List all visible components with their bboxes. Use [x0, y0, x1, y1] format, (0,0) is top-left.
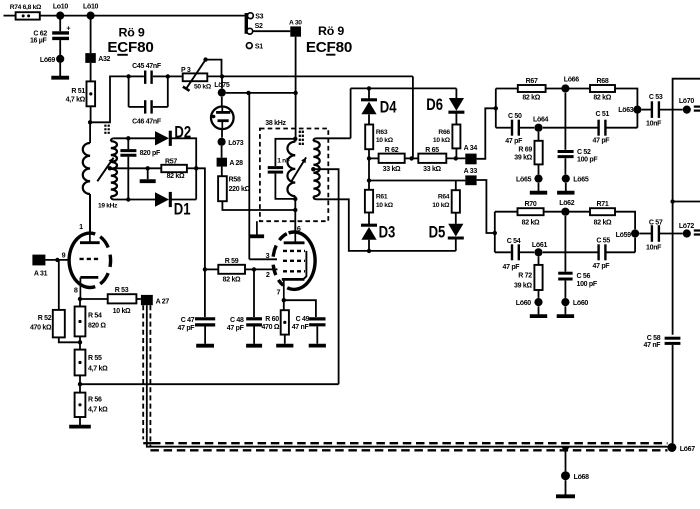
wire top row: [351, 87, 457, 89]
wire: [206, 60, 222, 77]
wire: [538, 183, 540, 191]
node junction: [670, 199, 674, 203]
node Lö60: [516, 298, 543, 307]
diode D5: [429, 213, 464, 242]
svg-text:D4: D4: [380, 98, 397, 117]
terminal A34: [464, 145, 478, 164]
terminal A28: [217, 158, 244, 168]
node Lö63: [618, 106, 641, 115]
resistor R59: [218, 258, 245, 284]
wire A33 link: [477, 180, 495, 233]
wire: [80, 298, 108, 300]
node junction: [126, 136, 130, 140]
node Lö69: [40, 55, 64, 64]
svg-text:R 60: R 60: [265, 316, 279, 323]
svg-text:C 49: C 49: [296, 316, 310, 323]
svg-text:16 µF: 16 µF: [30, 37, 48, 44]
switch contact S2: [247, 23, 263, 34]
wire: [495, 211, 518, 213]
node junction: [409, 156, 413, 160]
resistor R55: [75, 350, 108, 376]
diode D2: [155, 122, 191, 146]
capacitor C53: [646, 94, 663, 127]
svg-text:4,7 kΩ: 4,7 kΩ: [88, 407, 108, 414]
label pin 3: [266, 251, 270, 260]
node tap junction: [311, 167, 315, 171]
wire: [660, 109, 683, 111]
wire: [79, 417, 81, 425]
svg-text:C 50: C 50: [508, 113, 522, 120]
svg-text:R 69: R 69: [518, 146, 532, 153]
svg-text:Lö68: Lö68: [574, 474, 590, 481]
wire: [564, 216, 566, 272]
capacitor C49: [292, 316, 326, 331]
svg-text:C 47: C 47: [181, 317, 195, 324]
triode anode: [80, 194, 100, 243]
wire: [253, 327, 255, 344]
svg-text:R58: R58: [229, 177, 241, 184]
capacitor C58: [644, 335, 681, 349]
node Lö65: [562, 175, 589, 184]
capacitor C52: [558, 149, 599, 163]
wire shielded conductor: [147, 305, 668, 447]
node tap: [561, 447, 569, 454]
triode grid: [80, 258, 101, 260]
ground shield: [250, 221, 264, 236]
node junction: [367, 178, 371, 182]
wire: [136, 298, 141, 300]
svg-text:19 kHz: 19 kHz: [98, 203, 118, 210]
diode D4: [361, 88, 397, 116]
node junction: [282, 298, 286, 302]
wire adjust arrow: [292, 157, 307, 181]
wire secondary top: [317, 137, 351, 139]
resistor R52: [30, 310, 65, 338]
pentode grid g2: [283, 260, 305, 262]
diode D3: [361, 213, 395, 242]
resistor R72: [514, 257, 543, 291]
capacitor C47: [178, 317, 216, 332]
svg-text:R74 6,8 kΩ: R74 6,8 kΩ: [10, 4, 42, 11]
svg-text:Lo10: Lo10: [53, 4, 69, 11]
wire: [59, 337, 80, 342]
wire: [221, 146, 223, 158]
capacitor 820pF: [120, 138, 161, 199]
capacitor C62: [30, 23, 71, 44]
svg-text:S2: S2: [255, 23, 263, 30]
wire long: [80, 383, 339, 385]
svg-text:33 kΩ: 33 kΩ: [383, 166, 401, 173]
transformer core: [300, 131, 303, 145]
pentode anode: [284, 226, 305, 243]
wire: [226, 92, 296, 94]
terminal A33: [464, 168, 478, 185]
wire: [538, 164, 540, 174]
wire: [222, 201, 295, 210]
resistor R56: [75, 393, 108, 417]
terminal A30: [289, 19, 302, 36]
capacitor C51: [593, 111, 611, 145]
svg-text:C 54: C 54: [507, 238, 521, 245]
node Lö64: [533, 117, 549, 132]
label pin 8: [74, 285, 78, 294]
node Lö59: [616, 229, 640, 238]
svg-text:R68: R68: [597, 78, 609, 85]
capacitor C54: [503, 238, 521, 271]
node junction: [146, 166, 150, 170]
svg-text:82 kΩ: 82 kΩ: [167, 173, 185, 180]
node junction: [126, 74, 130, 78]
capacitor C57: [646, 219, 663, 251]
wire P3 wiper: [183, 60, 206, 91]
resistor R57: [161, 158, 187, 180]
capacitor C50: [505, 113, 523, 145]
svg-text:Lö66: Lö66: [564, 76, 580, 83]
coil 38kHz secondary: [313, 138, 319, 199]
wire: [89, 194, 91, 233]
node junction: [78, 340, 82, 344]
transformer core: [105, 125, 108, 135]
wire: [495, 89, 497, 128]
resistor R65: [418, 147, 446, 173]
wire: [544, 211, 590, 213]
ground: [276, 344, 293, 348]
svg-text:10 kΩ: 10 kΩ: [376, 137, 394, 144]
svg-text:47 pF: 47 pF: [505, 138, 523, 145]
node Lö10: [83, 4, 99, 20]
wire pin 2: [254, 268, 278, 270]
wire: [284, 335, 286, 344]
svg-text:Lö72: Lö72: [679, 223, 695, 230]
svg-text:R 62: R 62: [385, 147, 399, 154]
switch contact S3: [248, 13, 264, 21]
svg-text:R 53: R 53: [115, 287, 129, 294]
svg-text:Lö60: Lö60: [573, 300, 589, 307]
resistor R51: [66, 81, 95, 106]
capacitor C56: [558, 273, 598, 288]
svg-text:Lö65: Lö65: [573, 176, 589, 183]
wire: [520, 251, 534, 253]
svg-text:Rö 9: Rö 9: [118, 26, 144, 40]
ground: [140, 179, 156, 183]
wire: [564, 93, 566, 150]
node Lö61: [532, 242, 548, 256]
svg-text:10nF: 10nF: [646, 120, 662, 127]
resistor R54: [75, 299, 107, 336]
wire: [607, 251, 636, 253]
svg-text:47 pF: 47 pF: [503, 264, 521, 271]
resistor R53: [108, 287, 137, 315]
svg-text:Lö62: Lö62: [559, 200, 575, 207]
capacitor C48: [227, 317, 262, 332]
svg-text:ECF80: ECF80: [306, 39, 352, 56]
shield box 38kHz: [260, 120, 328, 221]
wire: [196, 168, 205, 269]
svg-text:A 27: A 27: [156, 298, 170, 305]
wire: [114, 137, 155, 139]
wire: [59, 63, 61, 76]
ground: [69, 425, 91, 429]
svg-text:A 31: A 31: [34, 270, 48, 277]
wire A34 riser: [477, 108, 496, 159]
svg-text:Lö73: Lö73: [228, 140, 244, 147]
svg-text:10 kΩ: 10 kΩ: [376, 202, 394, 209]
svg-text:6: 6: [297, 224, 301, 233]
svg-text:47 pF: 47 pF: [593, 263, 611, 270]
svg-text:33 kΩ: 33 kΩ: [423, 166, 441, 173]
svg-text:Lö59: Lö59: [616, 232, 632, 239]
svg-text:Lö64: Lö64: [533, 117, 549, 124]
coil 19kHz secondary: [111, 138, 117, 199]
wire: [187, 167, 196, 169]
wire shield dashed: [143, 305, 667, 443]
wire: [59, 16, 61, 32]
wire: [405, 157, 419, 159]
svg-text:ECF80: ECF80: [107, 39, 153, 56]
wire: [455, 238, 457, 251]
svg-text:S1: S1: [255, 44, 263, 51]
wire tap: [313, 169, 338, 384]
svg-text:D5: D5: [429, 223, 446, 242]
wire: [672, 345, 674, 443]
svg-text:A32: A32: [98, 56, 110, 63]
wire: [494, 212, 496, 253]
wire: [221, 167, 223, 177]
wire: [90, 76, 129, 122]
svg-text:10 kΩ: 10 kΩ: [432, 202, 450, 209]
node Lö68: [561, 471, 589, 481]
wire: [171, 138, 196, 199]
wire: [79, 375, 81, 392]
svg-text:47 pF: 47 pF: [593, 138, 611, 145]
wire: [564, 158, 566, 174]
svg-text:39 kΩ: 39 kΩ: [514, 154, 532, 161]
wire adjust arrow: [97, 158, 113, 182]
wire: [207, 75, 413, 77]
svg-text:9: 9: [62, 251, 66, 260]
wire: [294, 210, 296, 232]
node Lö72: [679, 223, 695, 237]
svg-text:R61: R61: [376, 194, 388, 201]
capacitor C45: [129, 63, 168, 84]
node junction: [493, 231, 497, 235]
svg-text:C 56: C 56: [577, 273, 591, 280]
wire secondary bottom: [317, 199, 456, 251]
node junction: [293, 137, 297, 141]
wire: [284, 300, 316, 317]
wire: [294, 199, 296, 210]
svg-text:82 kΩ: 82 kΩ: [522, 95, 540, 102]
node junction: [252, 267, 256, 271]
ground: [556, 494, 575, 498]
ground: [246, 344, 262, 348]
label pin 2: [266, 270, 270, 279]
svg-text:10nF: 10nF: [646, 245, 662, 252]
wire: [520, 127, 534, 129]
svg-text:Lö67: Lö67: [680, 446, 696, 453]
svg-text:1: 1: [79, 222, 83, 231]
node junction: [293, 91, 297, 95]
svg-text:R66: R66: [438, 129, 450, 136]
svg-text:R64: R64: [438, 194, 450, 201]
wire: [128, 76, 130, 107]
wire: [40, 15, 245, 17]
wire: [205, 268, 218, 270]
node junction: [293, 208, 297, 212]
capacitor C55: [593, 238, 611, 270]
node Lö66: [561, 76, 579, 92]
svg-text:Lö69: Lö69: [40, 57, 56, 64]
svg-text:47 pF: 47 pF: [178, 325, 196, 332]
svg-text:R 54: R 54: [88, 313, 102, 320]
wire: [565, 450, 567, 471]
svg-text:R 51: R 51: [71, 88, 85, 95]
wire secondary tap: [108, 166, 162, 170]
svg-text:C 57: C 57: [649, 219, 663, 226]
triode V1a envelope: [69, 233, 110, 287]
svg-text:C 48: C 48: [230, 317, 244, 324]
node Lö70: [679, 98, 695, 114]
node junction: [246, 91, 250, 95]
wire: [204, 327, 206, 344]
wire: [59, 40, 61, 55]
svg-text:4,7 kΩ: 4,7 kΩ: [66, 97, 86, 104]
capacitor C46: [129, 100, 168, 126]
node junction: [55, 258, 59, 262]
diode D1: [155, 192, 191, 219]
node junction: [88, 120, 92, 124]
svg-text:C 62: C 62: [33, 30, 47, 37]
wire: [538, 290, 540, 298]
node Lö75: [214, 82, 230, 97]
switch bar: [245, 13, 248, 34]
node junction: [126, 197, 130, 201]
node junction: [78, 297, 82, 301]
svg-text:R57: R57: [165, 158, 177, 165]
wire: [245, 268, 254, 270]
node junction: [494, 106, 498, 110]
svg-text:Rö 9: Rö 9: [318, 24, 344, 38]
coil 19kHz primary: [83, 143, 90, 194]
svg-text:P 3: P 3: [181, 67, 191, 74]
svg-text:C 52: C 52: [577, 149, 591, 156]
wire: [253, 30, 291, 32]
svg-text:82 kΩ: 82 kΩ: [522, 219, 540, 226]
wire: [543, 251, 598, 253]
svg-text:C45 47nF: C45 47nF: [132, 63, 162, 70]
svg-text:C 53: C 53: [649, 94, 663, 101]
potentiometer P3: [181, 67, 212, 90]
svg-text:Lö70: Lö70: [679, 98, 695, 105]
resistor R74: [10, 4, 42, 20]
svg-text:A 28: A 28: [229, 160, 243, 167]
wire: [565, 480, 567, 494]
svg-text:10 kΩ: 10 kΩ: [113, 308, 131, 315]
node junction: [220, 74, 224, 78]
wire: [673, 79, 700, 335]
node Lo10: [53, 4, 69, 20]
wire: [350, 88, 352, 138]
svg-text:47 nF: 47 nF: [292, 324, 310, 331]
resistor R69: [514, 132, 542, 165]
wire: [607, 127, 638, 129]
svg-text:Lö75: Lö75: [214, 82, 230, 89]
wire: [147, 168, 149, 179]
svg-text:100 pF: 100 pF: [577, 281, 598, 288]
label pin 6: [297, 224, 301, 233]
node Lö65: [516, 175, 543, 184]
svg-text:A 33: A 33: [464, 168, 478, 175]
wire: [455, 148, 457, 158]
terminal A27: [141, 295, 169, 306]
wire: [455, 112, 457, 124]
svg-text:470 kΩ: 470 kΩ: [30, 325, 52, 332]
svg-text:100 pF: 100 pF: [577, 157, 598, 164]
svg-text:D6: D6: [426, 95, 443, 114]
wire: [90, 16, 92, 54]
wire: [204, 269, 206, 317]
label Rö9 ECF80 pentode: [306, 24, 352, 56]
svg-text:D3: D3: [379, 223, 396, 242]
svg-text:R71: R71: [597, 201, 609, 208]
wire: [253, 269, 255, 317]
wire shield dashed: [150, 305, 667, 450]
svg-text:R 56: R 56: [88, 397, 102, 404]
svg-text:38 kHz: 38 kHz: [265, 120, 286, 127]
ground: [557, 314, 574, 318]
wire: [168, 75, 183, 77]
label Rö9 ECF80 triode: [107, 26, 153, 56]
resistor R60: [261, 300, 288, 334]
wire: [221, 129, 223, 138]
wire row: [369, 180, 465, 182]
svg-text:Lö10: Lö10: [83, 4, 99, 11]
wire: [639, 233, 651, 235]
wire: [171, 199, 196, 201]
node junction: [203, 57, 207, 61]
wire: [538, 306, 540, 314]
pentode grid g3: [283, 250, 305, 252]
label pin 7: [276, 288, 280, 297]
wire: [660, 233, 683, 235]
node Lö67: [667, 443, 695, 453]
ground: [530, 314, 547, 318]
svg-text:Lö60: Lö60: [516, 300, 532, 307]
svg-text:C 58: C 58: [647, 335, 661, 342]
svg-text:Lö61: Lö61: [532, 242, 548, 249]
svg-text:R 52: R 52: [38, 315, 52, 322]
resistor R70: [518, 201, 544, 226]
svg-text:C 51: C 51: [596, 111, 610, 118]
node Lö62: [559, 200, 575, 216]
resistor R58: [218, 176, 251, 201]
wire: [634, 238, 636, 253]
wire: [295, 37, 297, 139]
resistor R61: [365, 181, 394, 213]
svg-text:R67: R67: [526, 78, 538, 85]
svg-text:82 kΩ: 82 kΩ: [593, 95, 611, 102]
wire: [546, 88, 590, 90]
node junction: [203, 267, 207, 271]
node junction: [78, 382, 82, 386]
node junction: [367, 156, 371, 160]
wire: [45, 259, 69, 261]
wire: [89, 122, 91, 143]
node junction: [166, 74, 170, 78]
wire: [221, 76, 223, 88]
wire: [79, 336, 81, 349]
svg-text:R70: R70: [525, 201, 537, 208]
